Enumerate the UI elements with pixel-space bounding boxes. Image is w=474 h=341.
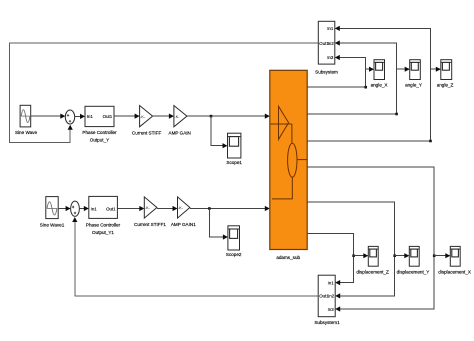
wire: branch down to Scope2 bbox=[209, 209, 227, 238]
wire: branch to displacement_Z bbox=[354, 255, 368, 257]
icon wire out right bbox=[297, 159, 307, 161]
scope angle_X bbox=[374, 60, 385, 80]
subsystem block Subsystem (top right) bbox=[318, 21, 335, 64]
scope displacement_X bbox=[450, 246, 460, 266]
svg-text:In2: In2 bbox=[328, 41, 335, 46]
svg-text:Current STIFF: Current STIFF bbox=[132, 131, 162, 136]
wire: branch to angle_Z bbox=[431, 68, 441, 70]
svg-text:angle_Y: angle_Y bbox=[405, 83, 422, 88]
wire: top feedback loop from Subsystem Out1 to Sum bottom bbox=[10, 43, 319, 143]
wire: Sine Wave1 to Sum2 bbox=[58, 208, 70, 210]
gain Current STIFF bbox=[140, 106, 153, 127]
wire: adams_sub out5 to Subsystem1 In2 and displacement_Y bbox=[307, 202, 395, 296]
sine wave source Sine Wave1 bbox=[46, 197, 58, 219]
svg-text:-K-: -K- bbox=[178, 206, 184, 210]
wire: AMP GAIN to adams_sub input 1 bbox=[187, 115, 269, 117]
svg-text:In1: In1 bbox=[328, 280, 335, 285]
svg-text:In1: In1 bbox=[87, 114, 94, 119]
svg-text:Scope1: Scope1 bbox=[226, 160, 242, 165]
wire: AMP GAIN1 to adams_sub input 2 bbox=[190, 208, 269, 210]
arrowhead into sum1 bottom bbox=[68, 125, 73, 130]
junction node to Scope2 bbox=[208, 207, 211, 210]
svg-text:In3: In3 bbox=[328, 307, 335, 312]
subsystem block Subsystem1 (bottom right) bbox=[318, 275, 335, 317]
svg-text:Out1: Out1 bbox=[103, 114, 113, 119]
wire: Sum to Phase Controller Output_Y bbox=[75, 115, 85, 117]
sum block Sum2 bbox=[71, 201, 80, 216]
svg-text:Sine Wave: Sine Wave bbox=[15, 130, 37, 135]
wire: adams_sub out2 to Subsystem In2 and angle_Y bbox=[307, 43, 396, 114]
wire: adams_sub out1 to Subsystem In3 and angle_X bbox=[307, 58, 366, 88]
svg-text:Subsystem1: Subsystem1 bbox=[314, 320, 340, 325]
scope displacement_Z bbox=[368, 246, 378, 266]
svg-text:Subsystem: Subsystem bbox=[315, 69, 338, 74]
wire: Current STIFF1 to AMP GAIN1 bbox=[157, 208, 177, 210]
wire: Current STIFF to AMP GAIN bbox=[153, 115, 174, 117]
svg-text:-K-: -K- bbox=[140, 115, 146, 119]
svg-text:displacement_X: displacement_X bbox=[438, 269, 471, 274]
wire: adams_sub out6 to Subsystem1 In1 and displacement_Z bbox=[307, 234, 353, 283]
scope displacement_Y bbox=[409, 246, 419, 266]
subsystem block Phase Controller Output_Y1 bbox=[89, 196, 118, 218]
svg-text:-K-: -K- bbox=[145, 206, 151, 210]
icon gain triangle bbox=[279, 106, 289, 139]
svg-text:Output_Y1: Output_Y1 bbox=[92, 230, 114, 235]
subsystem block Phase Controller Output_Y bbox=[85, 106, 114, 126]
wire: Sum2 to Phase Controller Output_Y1 bbox=[79, 208, 88, 210]
svg-text:angle_Z: angle_Z bbox=[437, 83, 454, 88]
svg-text:Out1: Out1 bbox=[106, 206, 116, 211]
wire: branch to angle_Y bbox=[397, 68, 409, 70]
svg-text:displacement_Z: displacement_Z bbox=[356, 269, 389, 274]
wire: Phase Controller1 to Current STIFF1 bbox=[117, 208, 143, 210]
wire: branch to displacement_Y bbox=[395, 255, 409, 257]
wire: adams_sub out3 to Subsystem In1 and angle_Z bbox=[307, 28, 430, 141]
scope Scope2 bbox=[228, 226, 240, 250]
svg-text:Phase Controller: Phase Controller bbox=[86, 222, 121, 227]
gain AMP GAIN1 bbox=[178, 197, 190, 218]
wire: bottom feedback loop from Subsystem1 Out1 to Sum2 bottom bbox=[75, 218, 318, 296]
svg-text:Scope2: Scope2 bbox=[226, 252, 242, 257]
arrowhead into sum2 bottom bbox=[72, 217, 77, 222]
scope angle_Y bbox=[410, 60, 421, 80]
icon wire in bbox=[271, 123, 292, 125]
icon wire to ellipse bbox=[291, 124, 293, 143]
svg-text:displacement_Y: displacement_Y bbox=[397, 269, 430, 274]
junction node to Scope1 bbox=[210, 115, 213, 118]
scope angle_Z bbox=[441, 60, 452, 80]
svg-text:In1: In1 bbox=[327, 26, 334, 31]
svg-text:AMP GAIN1: AMP GAIN1 bbox=[171, 222, 196, 227]
svg-text:Sine Wave1: Sine Wave1 bbox=[40, 222, 65, 227]
scope Scope1 bbox=[228, 133, 241, 158]
wire: Phase Controller to Current STIFF bbox=[114, 115, 139, 117]
svg-text:AMP GAIN: AMP GAIN bbox=[169, 131, 191, 136]
wire: adams_sub out4 to Subsystem1 In3 and displacement_X bbox=[307, 167, 434, 309]
subsystem adams_sub (orange) bbox=[270, 70, 307, 249]
gain AMP GAIN bbox=[174, 106, 187, 127]
wire: Sine Wave to Sum bbox=[31, 115, 65, 117]
svg-text:Phase Controller: Phase Controller bbox=[82, 130, 117, 135]
svg-text:-K-: -K- bbox=[175, 115, 181, 119]
icon feedback bbox=[272, 177, 292, 199]
svg-text:In3: In3 bbox=[327, 55, 334, 60]
wire: branch down to Scope1 bbox=[211, 116, 227, 146]
sum block Sum1 bbox=[65, 110, 74, 124]
svg-text:In1: In1 bbox=[91, 206, 98, 211]
svg-text:In2: In2 bbox=[328, 294, 335, 299]
wire: branch to displacement_X bbox=[434, 255, 449, 257]
svg-text:adams_sub: adams_sub bbox=[276, 255, 300, 260]
wire: branch to angle_X bbox=[366, 68, 374, 70]
svg-text:angle_X: angle_X bbox=[371, 83, 388, 88]
svg-text:Output_Y: Output_Y bbox=[90, 137, 109, 142]
sine wave source Sine Wave bbox=[20, 105, 31, 127]
svg-text:Current STIFF1: Current STIFF1 bbox=[134, 222, 166, 227]
icon ellipse bbox=[288, 143, 297, 177]
gain Current STIFF1 bbox=[144, 197, 157, 218]
